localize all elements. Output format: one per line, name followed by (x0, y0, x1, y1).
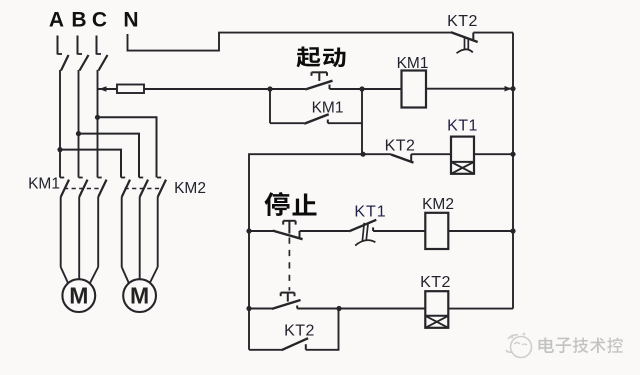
svg-text:B: B (71, 9, 86, 32)
svg-text:KM2: KM2 (422, 196, 454, 213)
svg-text:KM1: KM1 (28, 176, 60, 193)
svg-text:KT1: KT1 (447, 118, 478, 135)
svg-text:KT2: KT2 (447, 13, 478, 30)
svg-text:N: N (123, 9, 138, 32)
svg-text:A: A (49, 9, 64, 32)
svg-text:KT2: KT2 (284, 322, 315, 339)
svg-text:KT2: KT2 (385, 138, 416, 155)
svg-text:M: M (69, 283, 88, 309)
svg-text:KM1: KM1 (312, 100, 344, 117)
svg-text:M: M (130, 283, 149, 309)
svg-text:KT1: KT1 (354, 204, 386, 221)
svg-text:KT2: KT2 (420, 274, 451, 291)
svg-text:KM1: KM1 (397, 55, 429, 72)
svg-text:C: C (92, 9, 107, 32)
svg-text:KM2: KM2 (174, 180, 206, 197)
